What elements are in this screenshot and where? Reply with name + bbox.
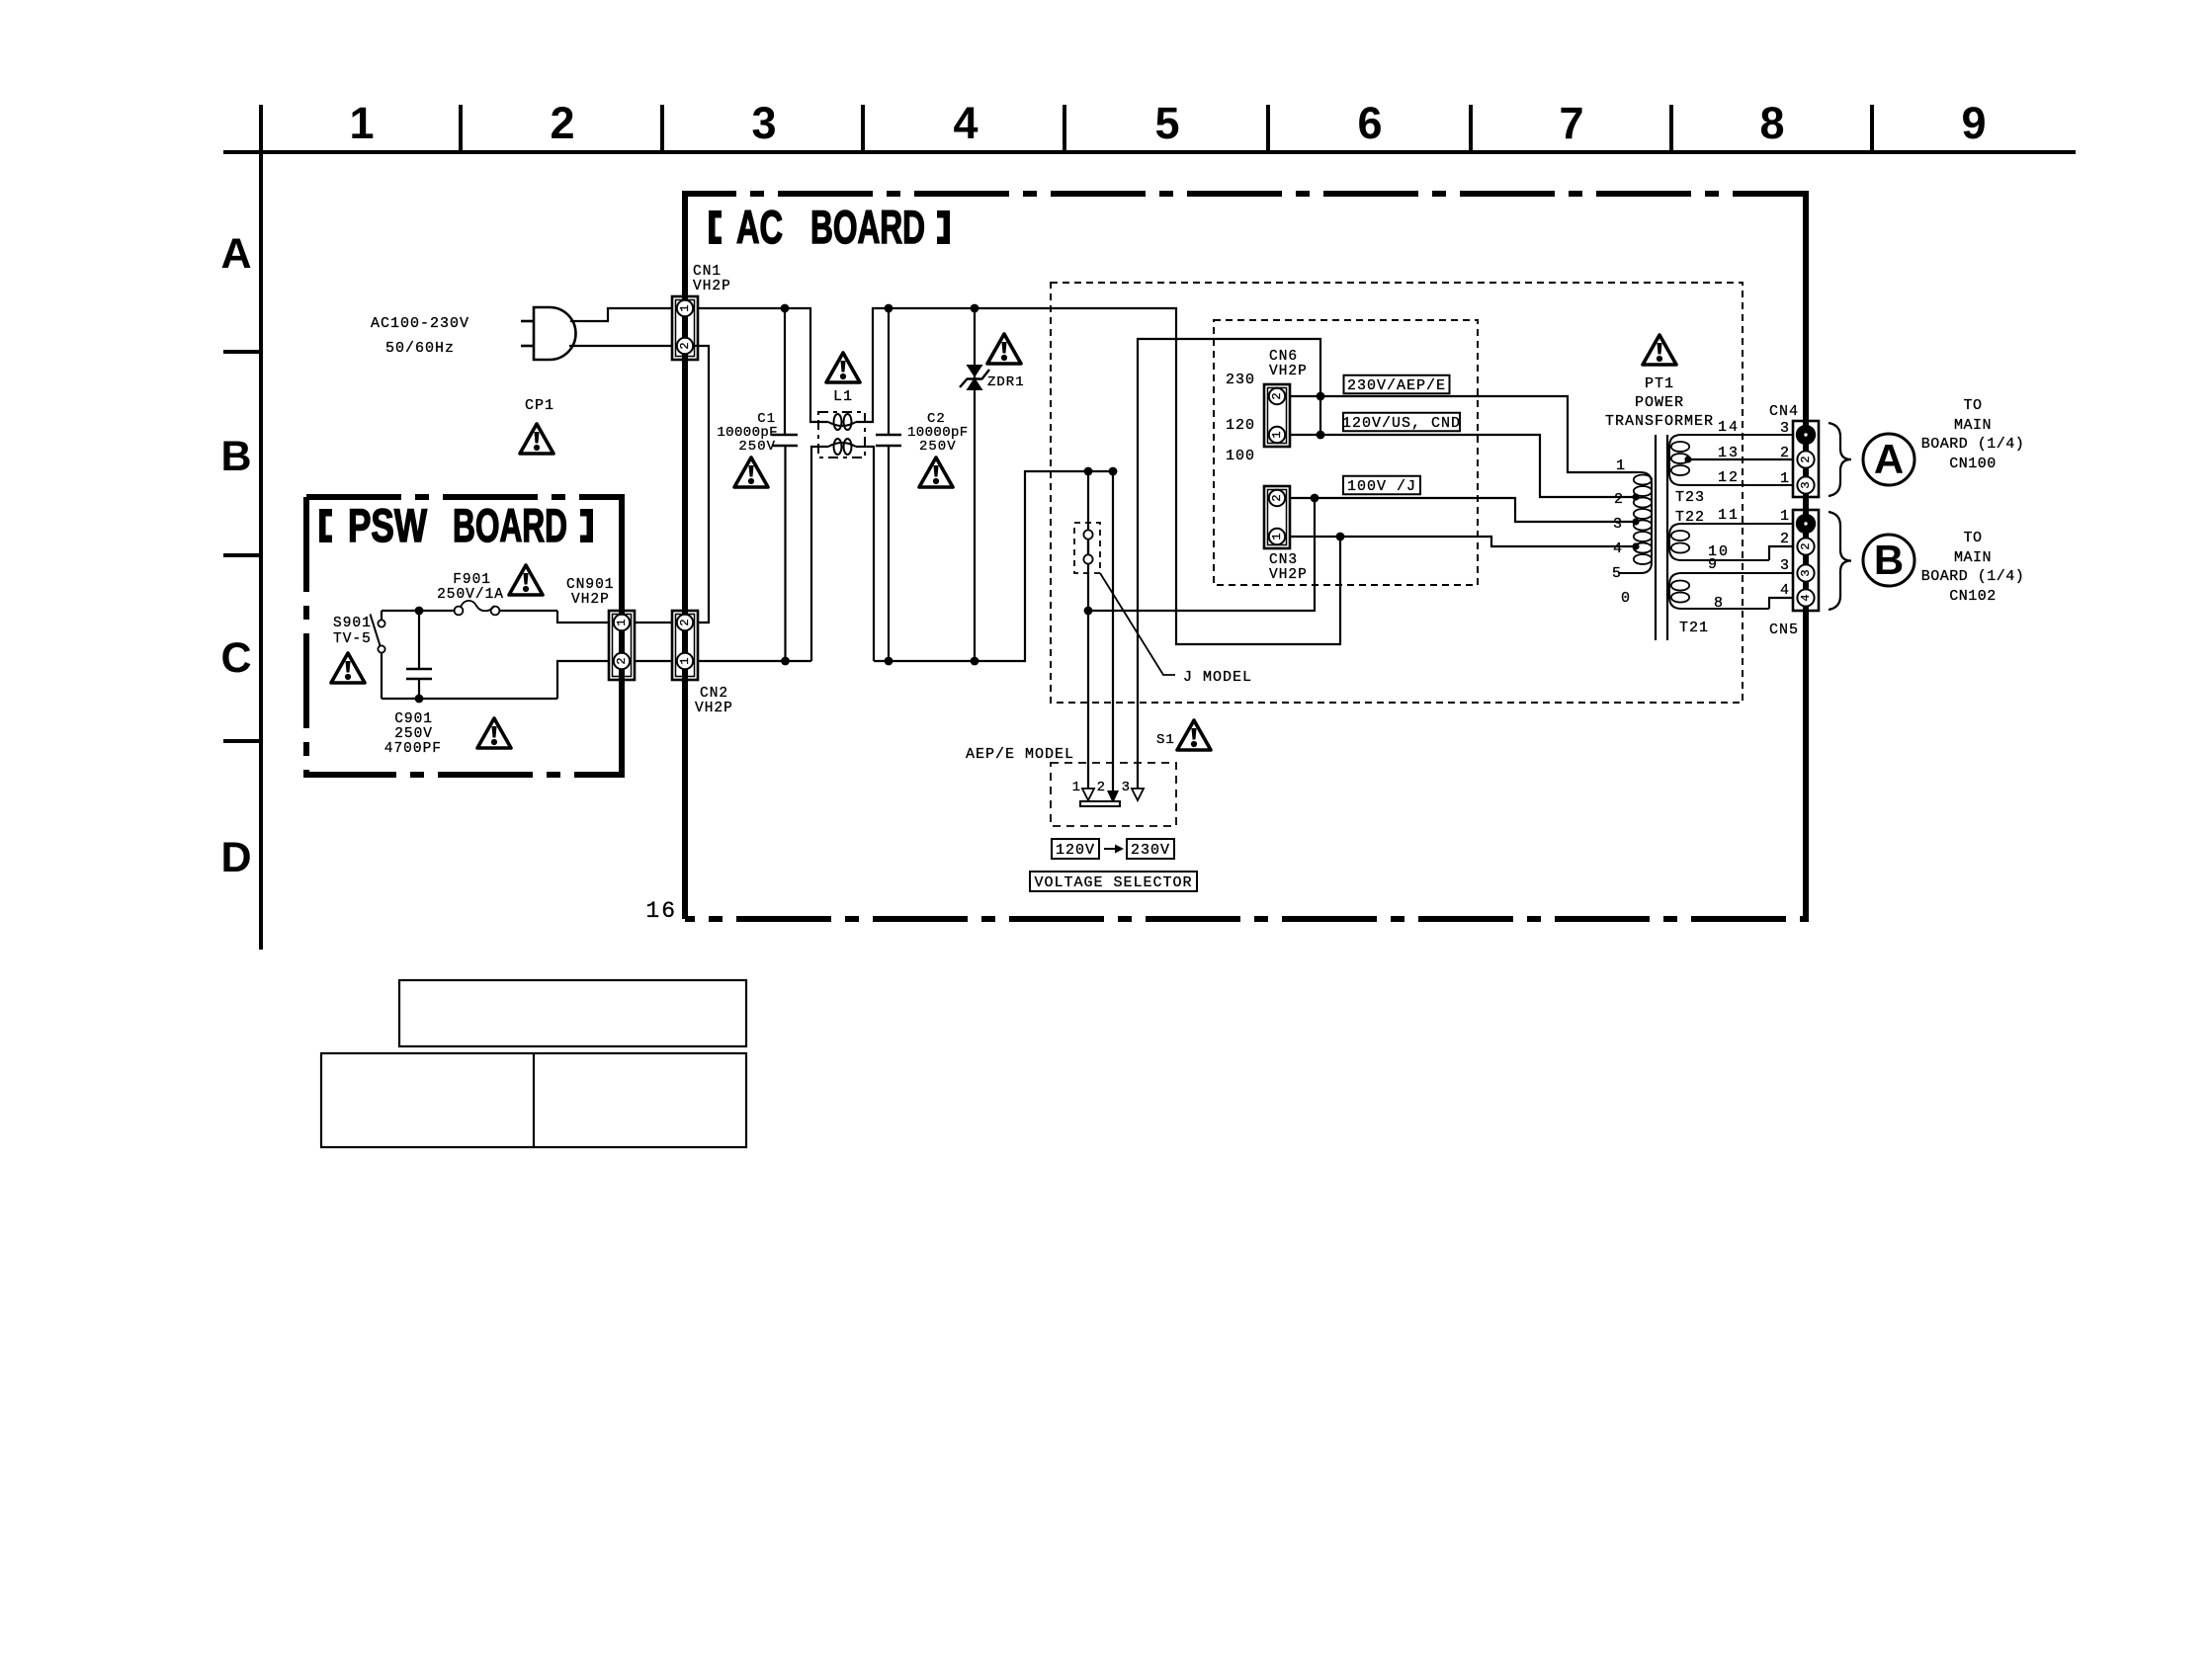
label PT1 POWER TRANSFORMER — [1605, 375, 1714, 430]
svg-text:C901: C901 — [394, 711, 433, 727]
junction (C2 top) — [885, 304, 893, 313]
svg-text:9: 9 — [1708, 556, 1718, 573]
svg-text:1: 1 — [1616, 457, 1626, 474]
jumper J MODEL switch — [1074, 523, 1100, 573]
junction (C2 bottom) — [885, 657, 893, 666]
svg-text:VOLTAGE SELECTOR: VOLTAGE SELECTOR — [1034, 874, 1192, 891]
svg-text:PT1: PT1 — [1645, 375, 1674, 392]
wire C2 top lead — [888, 308, 890, 435]
junction (riser1 / CN3-2 branch) — [1084, 607, 1093, 616]
svg-text:POWER: POWER — [1635, 394, 1684, 411]
wire selector riser 1 lower — [1087, 563, 1089, 790]
svg-text:2: 2 — [1799, 542, 1813, 549]
svg-text:4: 4 — [953, 98, 978, 148]
wire selector riser 2 — [1112, 471, 1114, 792]
svg-text:1: 1 — [678, 657, 692, 664]
connector CN2 — [672, 611, 698, 680]
label C1 value — [717, 411, 778, 455]
warning mark (CP1) — [520, 424, 553, 454]
svg-text:VH2P: VH2P — [693, 279, 731, 294]
svg-text:13: 13 — [1718, 445, 1740, 461]
junction (C1 top) — [781, 304, 790, 313]
transformer T23 secondary winding — [1669, 435, 1794, 485]
svg-text:1: 1 — [1780, 470, 1790, 487]
svg-text:9: 9 — [1961, 98, 1986, 148]
arrowhead 3 (open) — [1132, 789, 1144, 800]
svg-text:2: 2 — [678, 342, 692, 349]
svg-text:230V: 230V — [1131, 842, 1170, 859]
svg-text:BOARD: BOARD — [810, 201, 925, 253]
svg-text:BOARD: BOARD — [453, 499, 567, 551]
connector CN4 — [1793, 421, 1819, 497]
svg-text:120V: 120V — [1056, 842, 1095, 859]
warning mark (S1) — [1177, 720, 1211, 750]
warning mark (F901) — [509, 565, 543, 595]
label CN3 VH2P — [1269, 552, 1308, 583]
junction (C901 bottom) — [415, 695, 424, 704]
svg-text:A: A — [220, 230, 251, 278]
grid left border line — [259, 152, 263, 950]
junction (CN6-2 / riser3) — [1317, 392, 1325, 401]
svg-text:2: 2 — [615, 657, 629, 664]
svg-text:2: 2 — [1614, 491, 1624, 508]
arrowhead 2 (filled) — [1107, 790, 1119, 803]
brace B — [1829, 512, 1851, 610]
warning mark (C1) — [734, 457, 768, 487]
switch S901 — [371, 611, 385, 699]
svg-text:7: 7 — [1559, 98, 1583, 148]
wire L1 bottom-left lead — [811, 447, 828, 661]
transformer T21 secondary winding — [1669, 573, 1794, 609]
fuse F901 — [455, 601, 500, 616]
svg-text:100V /J: 100V /J — [1347, 478, 1416, 495]
svg-text:4: 4 — [1613, 540, 1623, 557]
junction (selector riser 2) — [1109, 467, 1118, 476]
svg-text:TO: TO — [1963, 397, 1982, 414]
svg-text:AEP/E MODEL: AEP/E MODEL — [966, 746, 1074, 763]
svg-text:C: C — [220, 634, 251, 682]
label 230V/AEP/E box — [1344, 375, 1450, 394]
wire L line (L1 to CN6 area) — [856, 308, 1340, 644]
label C2 value — [907, 411, 969, 455]
wire plug to CN1 pin2 — [569, 345, 678, 347]
border segment through CN1 — [682, 194, 688, 611]
junction (C901 top) — [415, 607, 424, 616]
svg-text:VH2P: VH2P — [695, 701, 733, 716]
brace A — [1829, 423, 1851, 496]
warning mark (C901) — [477, 718, 511, 748]
capacitor C1 — [772, 435, 798, 446]
svg-text:BOARD (1/4): BOARD (1/4) — [1921, 436, 2025, 453]
connector CN6 — [1264, 384, 1290, 447]
svg-text:TO: TO — [1963, 530, 1982, 546]
AC BOARD outline — [685, 194, 1806, 919]
wire PSW top (switch to fuse to CN901-1) — [382, 611, 609, 623]
connector CN1 — [672, 296, 698, 360]
svg-text:16: 16 — [645, 898, 677, 924]
label 120V/US, CND box — [1343, 413, 1460, 432]
label 230V box — [1127, 839, 1174, 859]
svg-text:CN2: CN2 — [700, 686, 728, 702]
svg-text:4: 4 — [1799, 594, 1813, 601]
svg-text:1: 1 — [1270, 533, 1284, 540]
junction (primary pin4) — [1632, 542, 1639, 549]
junction (C1 bottom) — [781, 657, 790, 666]
svg-text:CN102: CN102 — [1949, 588, 1997, 605]
inductor L1 (line filter) — [818, 412, 865, 457]
PSW BOARD outline — [306, 497, 622, 775]
junction (CN6-1 / riser3 end) — [1317, 431, 1325, 440]
junction (CN3-1 / L line) — [1336, 533, 1345, 541]
wire selector riser 1 upper — [1087, 471, 1089, 530]
svg-text:2: 2 — [1270, 392, 1284, 399]
warning mark (C2) — [919, 457, 953, 487]
svg-text:S901: S901 — [333, 616, 372, 631]
label arrow numbers 1 2 3 — [1072, 780, 1131, 795]
svg-text:50/60Hz: 50/60Hz — [385, 340, 455, 357]
svg-text:3: 3 — [1780, 420, 1790, 437]
svg-text:PSW: PSW — [348, 499, 427, 551]
svg-text:CN5: CN5 — [1769, 622, 1799, 638]
svg-text:A: A — [1874, 436, 1904, 482]
dashed enclosure (CN6/CN3 selector group) — [1214, 320, 1478, 585]
svg-text:2: 2 — [1270, 494, 1284, 501]
wire CN3-1 to transformer pin4 — [1290, 537, 1635, 546]
junction (primary pin2) — [1632, 493, 1639, 500]
svg-text:VH2P: VH2P — [1269, 364, 1308, 379]
svg-text:2: 2 — [1097, 780, 1106, 795]
svg-text:5: 5 — [1612, 565, 1622, 582]
node B circle — [1863, 535, 1914, 586]
svg-text:1: 1 — [1780, 508, 1790, 525]
svg-text:230: 230 — [1226, 372, 1255, 388]
AC BOARD title — [709, 201, 950, 253]
label CN5 pin numbers — [1780, 508, 1790, 599]
svg-text:CN1: CN1 — [693, 264, 722, 280]
wire CN6-2 to transformer pin1 — [1290, 396, 1637, 472]
connector CN5 — [1793, 510, 1819, 611]
svg-text:MAIN: MAIN — [1954, 549, 1992, 566]
label S901 TV-5 — [333, 616, 372, 647]
svg-text:100: 100 — [1226, 448, 1255, 464]
svg-text:4700PF: 4700PF — [384, 741, 442, 757]
svg-text:3: 3 — [1780, 557, 1790, 574]
selector dashed box (AEP/E MODEL) — [1051, 763, 1176, 826]
svg-text:1: 1 — [349, 98, 374, 148]
svg-text:3: 3 — [1122, 780, 1131, 795]
capacitor C2 — [876, 435, 901, 446]
svg-text:12: 12 — [1718, 469, 1740, 486]
junction (selector riser 1) — [1084, 467, 1093, 476]
wire CN3-2 to transformer pin3 — [1290, 498, 1635, 522]
svg-text:D: D — [220, 834, 251, 881]
transformer T22 secondary winding — [1669, 524, 1794, 560]
connector CN3 — [1264, 486, 1290, 548]
svg-text:CN4: CN4 — [1769, 403, 1799, 420]
svg-text:14: 14 — [1718, 419, 1740, 436]
svg-text:4: 4 — [1780, 582, 1790, 599]
label CN901 VH2P — [566, 577, 615, 608]
label TO MAIN BOARD (1/4) CN102 — [1921, 530, 2025, 605]
border segment through CN901 — [619, 497, 625, 775]
svg-text:ZDR1: ZDR1 — [987, 374, 1025, 390]
svg-text:3: 3 — [1613, 516, 1623, 533]
svg-text:1: 1 — [1270, 431, 1284, 438]
label TO MAIN BOARD (1/4) CN100 — [1921, 397, 2025, 472]
svg-text:250V: 250V — [738, 439, 776, 455]
grid column ticks — [261, 105, 1872, 152]
grid column numbers 1-9 — [349, 98, 1986, 148]
table box top — [399, 980, 746, 1046]
AC plug CP1 — [521, 307, 576, 360]
arrow 120V to 230V — [1104, 845, 1124, 854]
svg-text:S1: S1 — [1156, 732, 1175, 748]
capacitor C901 — [406, 611, 432, 699]
svg-text:L1: L1 — [833, 388, 853, 405]
svg-text:2: 2 — [550, 98, 574, 148]
junction (CN3-2 branch) — [1311, 494, 1319, 503]
wire T22 pin10 jog — [1769, 546, 1794, 560]
warning mark (S901) — [331, 653, 365, 683]
wire PSW bottom (switch to CN901-2) — [382, 661, 609, 699]
wire N line (CN2-1 to L1) — [698, 660, 811, 662]
svg-text:250V: 250V — [394, 726, 433, 742]
label C901 250V 4700PF — [384, 711, 442, 757]
grid ruler line — [223, 150, 2076, 154]
svg-text:CN3: CN3 — [1269, 552, 1298, 568]
svg-text:J MODEL: J MODEL — [1183, 669, 1252, 686]
svg-text:CN6: CN6 — [1269, 349, 1298, 365]
junction (ZDR1 top) — [971, 304, 979, 313]
svg-text:3: 3 — [751, 98, 776, 148]
warning mark (ZDR1) — [987, 334, 1021, 364]
wire L1 bottom-right lead — [856, 447, 874, 661]
wire CN901-2 to CN2-1 — [635, 660, 672, 662]
svg-text:8: 8 — [1714, 595, 1724, 612]
border segment through CN4/CN5 — [1803, 194, 1809, 919]
transformer core — [1656, 435, 1667, 640]
label AC100-230V 50/60Hz — [371, 315, 469, 357]
svg-text:CP1: CP1 — [525, 397, 554, 414]
svg-text:120: 120 — [1226, 417, 1255, 434]
svg-text:0: 0 — [1621, 590, 1631, 607]
junction (ZDR1 bottom) — [971, 657, 979, 666]
svg-text:1: 1 — [1072, 780, 1081, 795]
varistor ZDR1 — [960, 308, 989, 661]
table box bottom — [321, 1053, 746, 1147]
svg-text:2: 2 — [1780, 445, 1790, 461]
svg-text:250V: 250V — [919, 439, 957, 455]
svg-text:AC: AC — [736, 201, 783, 253]
label J MODEL leader — [1100, 573, 1175, 675]
label CN2 VH2P — [695, 686, 733, 716]
label F901 250V/1A — [437, 572, 504, 603]
dashed enclosure (transformer group) — [1051, 283, 1743, 703]
wire C2 bottom lead — [888, 446, 890, 661]
svg-text:2: 2 — [1780, 531, 1790, 547]
label CN4 pin numbers — [1780, 420, 1790, 487]
svg-text:AC100-230V: AC100-230V — [371, 315, 469, 332]
wire T23 pin13 tap — [1684, 456, 1794, 462]
junction (primary pin3) — [1632, 518, 1639, 525]
svg-text:MAIN: MAIN — [1954, 417, 1992, 434]
svg-text:120V/US, CND: 120V/US, CND — [1342, 415, 1461, 432]
svg-text:3: 3 — [1799, 481, 1813, 488]
svg-text:CN901: CN901 — [566, 577, 615, 593]
wire CN6-1 to transformer pin2 — [1290, 435, 1635, 497]
wire plug to CN1 pin1 — [570, 308, 678, 321]
wire T21 pin8 jog — [1769, 598, 1794, 609]
selector shorting bar — [1080, 801, 1120, 806]
svg-text:250V/1A: 250V/1A — [437, 587, 504, 603]
svg-text:B: B — [220, 433, 251, 480]
wire N line (L1 to selector riser) — [874, 471, 1113, 661]
svg-text:2: 2 — [1799, 456, 1813, 462]
svg-text:T23: T23 — [1675, 489, 1705, 506]
svg-text:3: 3 — [1799, 569, 1813, 576]
svg-text:VH2P: VH2P — [571, 592, 610, 608]
svg-text:T21: T21 — [1679, 620, 1709, 636]
svg-text:5: 5 — [1154, 98, 1179, 148]
label VOLTAGE SELECTOR box — [1030, 872, 1197, 891]
svg-text:B: B — [1874, 537, 1904, 583]
svg-text:TRANSFORMER: TRANSFORMER — [1605, 413, 1714, 430]
PSW BOARD title — [319, 499, 593, 551]
grid row ticks — [223, 352, 261, 741]
wire selector riser 3 — [1138, 339, 1320, 789]
svg-text:6: 6 — [1357, 98, 1382, 148]
wire CN1 pin2 to CN2 pin2 — [693, 346, 709, 623]
svg-text:8: 8 — [1759, 98, 1784, 148]
warning mark (PT1) — [1643, 335, 1676, 365]
svg-text:BOARD (1/4): BOARD (1/4) — [1921, 568, 2025, 585]
label CN6 VH2P — [1269, 349, 1308, 379]
arrowhead 1 (open) — [1082, 789, 1094, 800]
wire C1 top lead — [784, 308, 786, 435]
label primary pin numbers — [1612, 457, 1631, 607]
transformer PT1 primary winding — [1618, 472, 1652, 573]
label CN1 VH2P — [693, 264, 731, 294]
node A circle — [1863, 434, 1914, 485]
svg-text:11: 11 — [1718, 507, 1740, 524]
border segment through CN2 — [682, 611, 688, 919]
connector CN901 — [609, 611, 635, 680]
grid row letters A-D — [220, 230, 251, 881]
svg-text:CN100: CN100 — [1949, 456, 1997, 472]
svg-text:230V/AEP/E: 230V/AEP/E — [1347, 377, 1446, 394]
warning mark (L1) — [826, 353, 860, 382]
svg-text:T22: T22 — [1675, 509, 1705, 526]
svg-text:2: 2 — [678, 619, 692, 625]
wire L line (CN1-1 to L1) — [692, 308, 828, 422]
label 100V /J box — [1343, 476, 1420, 495]
svg-text:F901: F901 — [453, 572, 491, 588]
svg-text:TV-5: TV-5 — [333, 631, 372, 647]
svg-text:1: 1 — [615, 619, 629, 625]
svg-text:VH2P: VH2P — [1269, 567, 1308, 583]
label 120V box — [1052, 839, 1099, 859]
wire C1 bottom lead — [784, 446, 786, 661]
svg-text:1: 1 — [678, 304, 692, 311]
wire CN901-1 to CN2-2 — [635, 622, 672, 623]
wire CN3-2 branch — [1088, 498, 1315, 611]
